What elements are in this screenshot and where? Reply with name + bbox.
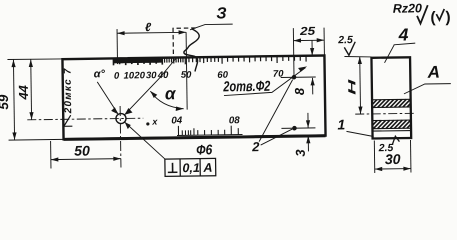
svg-text:З: З <box>216 5 227 22</box>
detail break squiggle <box>184 29 200 72</box>
roughness 2.5 top check <box>344 42 355 56</box>
alpha text <box>165 84 177 103</box>
roughness general check <box>417 5 428 23</box>
svg-text:А: А <box>427 63 441 82</box>
svg-text:α: α <box>165 84 177 103</box>
svg-text:25: 25 <box>299 26 316 38</box>
dim 59 extension bottom <box>9 138 63 141</box>
svg-text:3: 3 <box>293 149 308 157</box>
svg-text:59: 59 <box>0 94 11 110</box>
dim 30 extensions <box>374 140 411 173</box>
dim 8 text <box>292 87 307 95</box>
label 04 <box>171 115 183 126</box>
svg-text:50: 50 <box>74 142 90 158</box>
hatched band 2 borders <box>372 120 411 131</box>
svg-text:70: 70 <box>273 69 284 80</box>
hatched band 1 borders <box>372 99 411 107</box>
small hole lower centerline <box>281 127 315 129</box>
dim 25 extension right <box>323 28 325 55</box>
svg-text:08: 08 <box>229 115 241 126</box>
dim 30 line <box>375 166 411 171</box>
dim 25 text <box>299 26 316 38</box>
side view centerline <box>355 112 416 115</box>
dim 3 text <box>293 149 308 157</box>
tolerance value 0,1 <box>182 161 200 175</box>
position label 2 <box>251 139 260 154</box>
label 4 underline <box>394 43 416 45</box>
svg-text:10: 10 <box>124 70 135 81</box>
tolerance symbol perpendicular <box>168 163 178 173</box>
dim H top extension <box>344 56 371 57</box>
hole F6 centerline horizontal <box>27 118 143 120</box>
label A side <box>427 63 441 82</box>
label 1 leader <box>346 131 373 137</box>
roughness 2.5 top text <box>337 34 353 46</box>
marking angle symbol <box>64 115 73 126</box>
svg-text:0: 0 <box>114 71 120 82</box>
small hole upper vertical extension <box>292 28 295 77</box>
svg-text:04: 04 <box>171 115 183 126</box>
dim 44 text <box>16 84 31 100</box>
dim 59 line <box>11 60 16 140</box>
dim l text <box>145 20 152 34</box>
label 4 leader <box>384 45 394 63</box>
dim 50 line <box>51 157 121 162</box>
top alpha scale ticks <box>113 56 306 66</box>
hatched band 1 fill <box>373 99 411 107</box>
svg-text:Rz20: Rz20 <box>393 1 422 15</box>
svg-text:): ) <box>445 9 450 26</box>
svg-text:1: 1 <box>337 116 345 132</box>
bottom inner scale baseline <box>177 134 242 137</box>
svg-text:(: ( <box>430 9 436 26</box>
svg-text:30: 30 <box>385 151 401 167</box>
small hole upper <box>292 75 297 80</box>
label x index <box>151 117 158 127</box>
small hole upper centerline <box>281 76 316 78</box>
svg-text:α°: α° <box>94 68 106 80</box>
tolerance frame <box>165 158 216 176</box>
dim H line <box>358 56 363 114</box>
dim 44 line <box>29 59 34 119</box>
dim 8 outside arrows <box>310 40 315 94</box>
position 2 leader to lower hole <box>260 129 292 145</box>
bottom edge thick wire <box>64 136 326 140</box>
label 1 <box>337 116 345 132</box>
detail label Z leader <box>190 24 233 30</box>
svg-text:4: 4 <box>397 24 408 44</box>
label A underline and leader <box>404 84 451 94</box>
plate outline (main view) <box>62 55 325 139</box>
dim 50 extension left <box>50 141 52 168</box>
svg-text:А: А <box>202 161 212 175</box>
hole F6 centerline vertical / 50-dim extension <box>119 106 122 167</box>
svg-text:20мкс 7: 20мкс 7 <box>63 67 75 114</box>
scale label alpha deg <box>94 68 106 80</box>
alpha ray line A <box>124 59 177 115</box>
svg-text:x: x <box>151 117 158 127</box>
roughness Rz20 general note <box>393 1 422 15</box>
hatched band 2 fill <box>373 120 411 129</box>
dim 30 text <box>385 151 401 167</box>
svg-text:30: 30 <box>146 70 157 81</box>
svg-text:8: 8 <box>292 87 307 95</box>
svg-text:Ф6: Ф6 <box>196 141 212 157</box>
marking text 20mks 7 (rotated) <box>63 67 75 114</box>
dim 25 line <box>293 38 324 43</box>
dim 59 text <box>0 94 11 110</box>
tolerance frame leader <box>125 122 165 160</box>
svg-text:ℓ: ℓ <box>145 20 152 34</box>
svg-text:44: 44 <box>16 84 31 100</box>
roughness parentheses mark <box>430 9 450 26</box>
small index dot <box>146 122 149 125</box>
small hole lower <box>292 126 297 131</box>
svg-text:2.5: 2.5 <box>337 34 353 46</box>
scale numbers 0-70 <box>114 68 284 82</box>
callout 2otv.F2 text <box>222 79 270 96</box>
dim H text <box>346 78 358 95</box>
detail label Z <box>216 5 227 22</box>
detail box (dashed) <box>173 28 198 61</box>
callout underline and leader to hole <box>224 66 308 95</box>
dim 50 text <box>74 142 90 158</box>
label F6 <box>196 141 212 157</box>
hole F6 (pivot) <box>116 113 126 123</box>
dim 59 extension top <box>7 58 61 61</box>
side view outline <box>371 57 411 138</box>
dim l line <box>117 30 186 35</box>
svg-text:20: 20 <box>133 70 145 81</box>
dim 3 outside arrows <box>306 113 311 152</box>
alpha arc <box>150 91 183 112</box>
line B: extension from 50 tick <box>186 32 187 109</box>
alpha pointer from scale label <box>97 82 118 115</box>
label 4 <box>397 24 408 44</box>
svg-text:0,1: 0,1 <box>182 161 200 175</box>
dim l extension left <box>116 29 118 64</box>
label 08 <box>229 115 241 126</box>
svg-text:H: H <box>346 78 358 95</box>
tolerance datum A <box>202 161 212 175</box>
roughness 2.5 bottom check <box>392 136 399 144</box>
position 2 leader to upper hole <box>258 80 293 142</box>
roughness 2.5 bottom text <box>378 142 394 154</box>
bottom inner scale ticks <box>178 125 238 135</box>
